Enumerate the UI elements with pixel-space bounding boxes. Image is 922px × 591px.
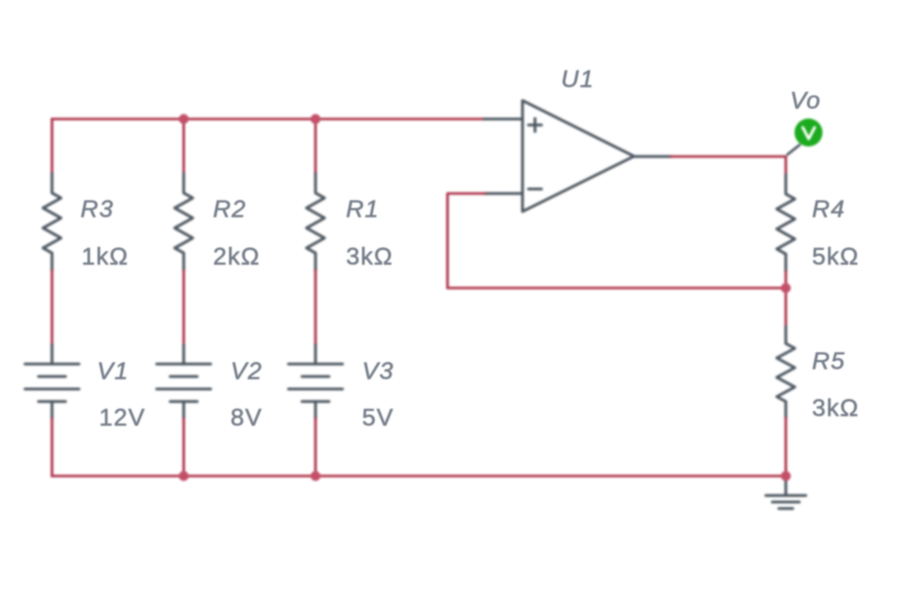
svg-text:3kΩ: 3kΩ (346, 244, 393, 271)
wire branch3 top (to R1) (314, 119, 317, 173)
wire branch2 top (to R2) (182, 119, 185, 173)
wire left branch top (to R3) (51, 119, 54, 173)
svg-text:1kΩ: 1kΩ (82, 244, 129, 271)
resistor R1 (307, 174, 325, 271)
wire feedback from - input (448, 194, 786, 289)
wire R2 to V2 (182, 271, 185, 346)
node junction bottom bus x=315.5 (311, 471, 321, 481)
svg-text:R3: R3 (81, 196, 114, 223)
node junction bottom bus / ground (781, 471, 791, 481)
node junction feedback / R4-R5 (781, 283, 791, 293)
svg-text:2kΩ: 2kΩ (213, 244, 260, 271)
resistor R2 (175, 174, 193, 271)
wire R1 to V3 (314, 271, 317, 346)
svg-text:Vo: Vo (790, 88, 821, 115)
node junction top bus x=183.7 (179, 114, 189, 124)
wire V3 to bottom bus (314, 419, 317, 477)
wire op-amp output to Vo node (671, 157, 786, 175)
wire R3 to V1 (51, 271, 54, 346)
wire top bus from node A to op-amp + input (52, 118, 484, 121)
probe Vo v glyph (803, 128, 815, 139)
wire bottom bus (52, 475, 786, 478)
svg-text:R1: R1 (346, 196, 379, 223)
svg-text:V3: V3 (362, 358, 394, 385)
svg-text:V2: V2 (231, 358, 263, 385)
node junction top bus x=315.5 (311, 114, 321, 124)
probe lead Vo (788, 145, 800, 155)
svg-text:R4: R4 (812, 196, 845, 223)
svg-text:8V: 8V (231, 405, 263, 432)
svg-text:5kΩ: 5kΩ (812, 244, 859, 271)
svg-text:R5: R5 (812, 348, 845, 375)
node junction bottom bus x=183.7 (179, 471, 189, 481)
resistor R4 (777, 175, 795, 272)
svg-text:R2: R2 (213, 196, 246, 223)
svg-text:U1: U1 (561, 66, 594, 93)
resistor R5 (777, 327, 795, 419)
probe Vo green circle (795, 119, 823, 147)
ground (766, 476, 806, 509)
wire feedback node to R5 (784, 288, 787, 327)
wire V2 to bottom bus (182, 419, 185, 477)
resistor R3 (43, 174, 61, 271)
op-amp U1 (484, 101, 671, 212)
wire R5 to bottom bus (784, 418, 787, 476)
battery V3 (289, 345, 343, 419)
battery V1 (25, 345, 79, 419)
svg-text:12V: 12V (99, 405, 146, 432)
svg-text:3kΩ: 3kΩ (812, 395, 859, 422)
svg-text:V1: V1 (97, 358, 129, 385)
battery V2 (157, 345, 211, 419)
wire R4 to feedback node (784, 272, 787, 289)
svg-text:5V: 5V (362, 405, 394, 432)
wire V1 to bottom bus (51, 419, 54, 477)
